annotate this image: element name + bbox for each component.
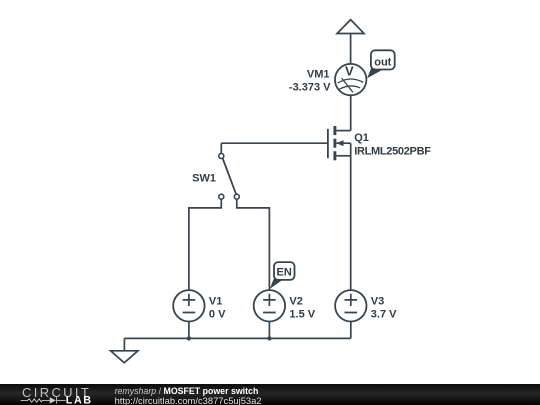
svg-text:V: V bbox=[345, 64, 354, 79]
svg-text:V3: V3 bbox=[371, 295, 384, 307]
svg-text:1.5 V: 1.5 V bbox=[289, 308, 315, 320]
svg-text:out: out bbox=[374, 56, 391, 68]
svg-text:EN: EN bbox=[277, 267, 292, 279]
svg-text:-3.373 V: -3.373 V bbox=[289, 81, 331, 93]
svg-text:3.7 V: 3.7 V bbox=[371, 308, 397, 320]
svg-text:Q1: Q1 bbox=[354, 132, 369, 144]
svg-text:IRLML2502PBF: IRLML2502PBF bbox=[354, 145, 431, 157]
svg-text:LAB: LAB bbox=[66, 394, 93, 405]
svg-text:SW1: SW1 bbox=[192, 173, 216, 185]
svg-text:V1: V1 bbox=[209, 295, 222, 307]
svg-text:V2: V2 bbox=[289, 295, 302, 307]
svg-text:0 V: 0 V bbox=[209, 308, 226, 320]
svg-text:VM1: VM1 bbox=[307, 69, 330, 81]
